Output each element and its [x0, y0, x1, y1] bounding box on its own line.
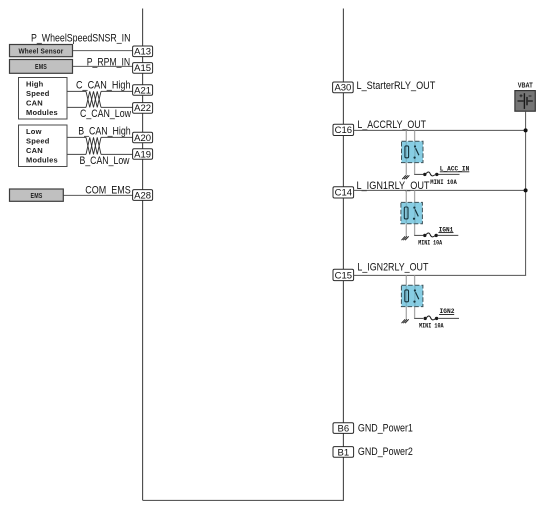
svg-text:B_CAN_High: B_CAN_High — [78, 126, 131, 138]
ground K1 — [402, 175, 409, 179]
twisted pair C_CAN — [86, 91, 101, 107]
wire C_CAN_Low — [67, 106, 133, 108]
svg-text:High: High — [26, 80, 44, 89]
wire relay K3 switch drop — [414, 275, 416, 318]
pin C16 — [333, 124, 354, 136]
wire relay K2 switch drop — [414, 190, 416, 235]
svg-text:CAN: CAN — [26, 98, 43, 107]
svg-text:A13: A13 — [134, 47, 151, 58]
svg-text:A15: A15 — [134, 63, 151, 74]
svg-text:B1: B1 — [337, 447, 349, 458]
pin A20 — [133, 132, 153, 144]
svg-text:MINI 10A: MINI 10A — [418, 240, 443, 248]
svg-text:C14: C14 — [335, 188, 352, 199]
pin A13 — [133, 46, 153, 58]
component Wheel Sensor — [10, 45, 73, 57]
component High Speed CAN Modules — [19, 78, 68, 120]
wire B_CAN_High — [67, 136, 133, 138]
fuse F1 MINI 10A — [423, 172, 438, 176]
wire bottom horizontal connecting buses — [143, 499, 344, 501]
svg-text:A22: A22 — [134, 103, 151, 114]
pin A30 — [333, 82, 354, 94]
wire right bus vertical — [342, 9, 344, 501]
wire K2 switch to fuse — [414, 234, 423, 236]
pin A21 — [133, 85, 153, 97]
svg-text:VBAT: VBAT — [518, 82, 534, 89]
svg-text:MINI 10A: MINI 10A — [430, 179, 457, 187]
wire VBAT feed vertical — [525, 111, 527, 275]
svg-text:MINI 10A: MINI 10A — [419, 322, 444, 330]
wire fuse F1 to L_ACC_IN — [439, 173, 460, 175]
wire B_CAN_Low — [67, 153, 133, 155]
svg-text:C16: C16 — [335, 125, 352, 136]
fuse F3 MINI 10A — [424, 316, 439, 320]
component EMS upper — [10, 60, 73, 74]
wire relay K3 coil drop — [405, 275, 407, 319]
relay K2 IGN1 — [401, 202, 423, 223]
svg-text:COM_EMS: COM_EMS — [85, 184, 130, 196]
wire C16 to VBAT line — [354, 129, 526, 131]
junction C16/VBAT — [524, 128, 528, 132]
fuse F2 MINI 10A — [423, 233, 438, 237]
pin A22 — [133, 103, 153, 115]
wire relay K1 coil drop — [405, 130, 407, 175]
svg-text:L_ACCRLY_OUT: L_ACCRLY_OUT — [357, 119, 426, 131]
twisted pair B_CAN — [86, 137, 101, 154]
node L_ACC_IN — [440, 165, 470, 173]
svg-text:Wheel Sensor: Wheel Sensor — [19, 46, 64, 55]
wire Wheel Sensor to A13 — [73, 50, 134, 52]
wire K3 switch to fuse — [414, 317, 423, 319]
wire C_CAN_High — [67, 90, 133, 92]
svg-text:A28: A28 — [134, 190, 151, 201]
svg-text:Modules: Modules — [26, 108, 58, 117]
ground K3 — [402, 319, 409, 323]
wire relay K1 switch drop — [414, 130, 416, 174]
wire fuse F3 to IGN2 — [438, 317, 459, 319]
svg-text:EMS: EMS — [31, 193, 43, 200]
battery VBAT symbol — [515, 91, 535, 112]
svg-text:GND_Power1: GND_Power1 — [358, 422, 413, 434]
svg-text:B_CAN_Low: B_CAN_Low — [80, 155, 130, 167]
pin C14 — [333, 187, 354, 199]
pin C15 — [333, 269, 354, 281]
svg-text:Speed: Speed — [26, 89, 50, 98]
pin A28 — [133, 190, 153, 202]
wire EMS to A15 — [73, 65, 134, 67]
svg-text:Modules: Modules — [26, 155, 58, 164]
wire EMS to A28 — [63, 194, 133, 196]
wire fuse F2 to IGN1 — [438, 234, 458, 236]
wire C15 to VBAT line corner — [354, 274, 526, 276]
svg-text:A30: A30 — [334, 83, 351, 94]
svg-text:IGN1: IGN1 — [439, 226, 454, 234]
wire relay K2 coil drop — [405, 190, 407, 236]
ground K2 — [402, 236, 409, 240]
junction C14/VBAT — [524, 188, 528, 192]
svg-text:C_CAN_High: C_CAN_High — [76, 80, 131, 92]
svg-text:C_CAN_Low: C_CAN_Low — [80, 108, 131, 120]
pin A19 — [133, 149, 153, 161]
pin B6 — [333, 423, 354, 435]
relay K3 IGN2 — [401, 285, 423, 306]
svg-text:CAN: CAN — [26, 146, 43, 155]
pin B1 — [333, 447, 354, 459]
svg-text:L_IGN2RLY_OUT: L_IGN2RLY_OUT — [357, 262, 428, 274]
svg-text:B6: B6 — [337, 423, 349, 434]
component EMS lower — [10, 189, 64, 201]
relay K1 ACC — [402, 141, 424, 162]
svg-text:Low: Low — [26, 127, 42, 136]
svg-text:EMS: EMS — [35, 64, 47, 71]
wire C14 to VBAT line — [354, 189, 526, 191]
component Low Speed CAN Modules — [19, 125, 68, 167]
svg-text:GND_Power2: GND_Power2 — [358, 446, 413, 458]
svg-text:P_WheelSpeedSNSR_IN: P_WheelSpeedSNSR_IN — [31, 33, 131, 45]
svg-text:A19: A19 — [134, 149, 151, 160]
node IGN1 — [438, 226, 453, 234]
svg-text:Speed: Speed — [26, 137, 50, 146]
node IGN2 — [439, 308, 454, 316]
svg-text:A21: A21 — [134, 85, 151, 96]
pin A15 — [133, 63, 153, 75]
svg-text:C15: C15 — [335, 270, 352, 281]
svg-text:A20: A20 — [134, 133, 151, 144]
wire K1 switch to fuse — [414, 173, 423, 175]
svg-text:IGN2: IGN2 — [440, 308, 455, 316]
svg-text:L_StarterRLY_OUT: L_StarterRLY_OUT — [357, 80, 436, 92]
wire left bus vertical — [142, 9, 144, 501]
